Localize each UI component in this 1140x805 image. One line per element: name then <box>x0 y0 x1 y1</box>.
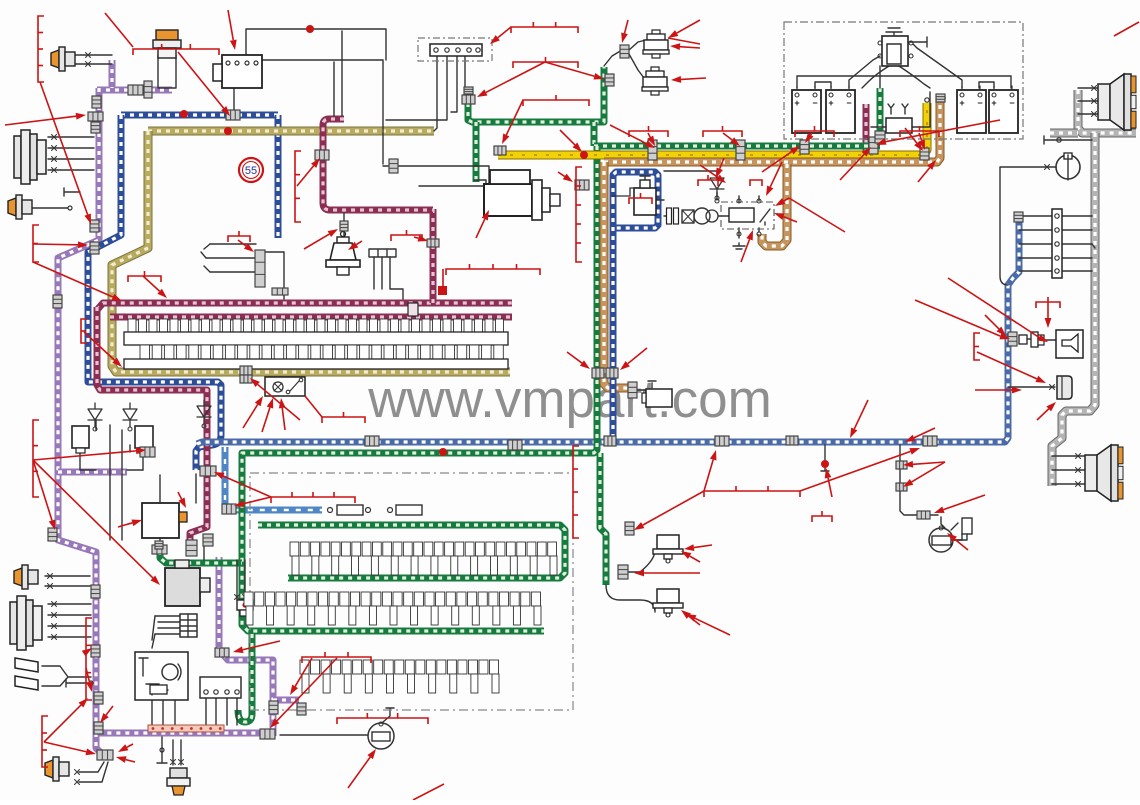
svg-text:55: 55 <box>245 165 257 177</box>
svg-text:−: − <box>1009 98 1014 108</box>
svg-text:+: + <box>828 98 833 108</box>
svg-text:+: + <box>794 98 799 108</box>
svg-text:−: − <box>812 98 817 108</box>
svg-text:www.vmpart.com: www.vmpart.com <box>367 370 771 429</box>
svg-text:+: + <box>991 98 996 108</box>
svg-text:−: − <box>846 98 851 108</box>
svg-text:+: + <box>959 98 964 108</box>
svg-text:−: − <box>977 98 982 108</box>
